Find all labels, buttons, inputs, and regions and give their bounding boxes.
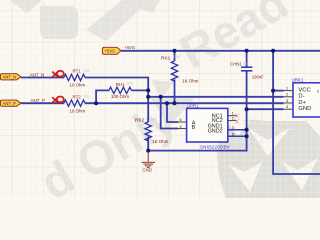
svg-text:ANT_N: ANT_N (3, 75, 17, 80)
IC UPR1 SN65220DBV (187, 104, 230, 150)
svg-text:SN65220DBV: SN65220DBV (200, 144, 230, 149)
svg-text:1K Ohm: 1K Ohm (152, 139, 168, 144)
svg-text:100 Ohm: 100 Ohm (111, 94, 129, 99)
wire RH1 left vertical (96, 90, 109, 103)
resistor RK1 (161, 55, 199, 84)
svg-text:UPR1: UPR1 (187, 104, 199, 109)
svg-text:10%: 10% (127, 81, 134, 85)
junction dot rail-RK1 (173, 49, 177, 53)
URK1 pin 4 stub (GND) (284, 108, 294, 110)
svg-text:1: 1 (286, 87, 288, 91)
wire RK1 top stub (174, 51, 176, 61)
svg-text:2: 2 (286, 93, 288, 97)
wire ANT_N segment (21, 77, 64, 79)
resistor RT2 (64, 95, 90, 114)
svg-text:10%: 10% (83, 95, 90, 99)
wire cap top (246, 51, 248, 67)
junction dot rail-drop (271, 49, 275, 53)
wire RK1 bottom stub (174, 80, 176, 104)
wire ANT_N to bus corner (85, 78, 148, 123)
svg-text:RK1: RK1 (161, 55, 171, 61)
svg-text:RT1: RT1 (73, 69, 82, 74)
URK1 pin 3 stub (D+) (284, 102, 294, 104)
wire RH1 right stub (132, 89, 149, 91)
svg-text:3: 3 (286, 99, 288, 103)
svg-text:10%: 10% (151, 118, 158, 122)
svg-text:GND: GND (298, 106, 311, 112)
wire bus below RK2 to gnd junction (147, 137, 149, 151)
svg-text:RT2: RT2 (73, 95, 82, 100)
power port +5VS (102, 47, 121, 54)
svg-text:4: 4 (286, 105, 288, 109)
UPR1 pin 2 stub (NC2) (228, 120, 237, 122)
svg-text:1K Ohm: 1K Ohm (182, 79, 198, 84)
svg-text:RH1: RH1 (116, 82, 125, 87)
junction dot gnd rail (146, 149, 150, 153)
svg-text:4: 4 (180, 125, 182, 129)
ground symbol GND (142, 151, 156, 173)
wire VCC tap (273, 90, 283, 92)
junction dot GND2 (245, 134, 249, 138)
port ANT_N (0, 74, 21, 80)
junction dot VCC tap (271, 89, 275, 93)
svg-text:+5VS: +5VS (125, 45, 136, 50)
junction dot RK1-ANT_P (173, 101, 177, 105)
junction dot rail-CHN1 (245, 49, 249, 53)
svg-text:GND: GND (142, 168, 153, 173)
watermark (decorative) (10, 0, 297, 210)
svg-text:1: 1 (232, 112, 234, 116)
svg-text:10%: 10% (174, 55, 181, 59)
svg-text:5: 5 (232, 132, 234, 136)
UPR1 pin 6 stub (A) (178, 121, 187, 123)
wire D- line (148, 96, 283, 98)
wire UPR1 pin B tap (161, 97, 178, 129)
svg-text:6: 6 (180, 118, 182, 122)
wire UPR1 GND2 pin (228, 135, 247, 137)
wire +5VS rail (121, 50, 320, 52)
svg-text:CHN1: CHN1 (230, 62, 242, 67)
wire GND pin line (247, 108, 284, 110)
IC URK1 (USB connector) (292, 77, 320, 117)
UPR1 pin 1 stub (NC1) (228, 115, 237, 117)
resistor RH1 (109, 81, 133, 99)
svg-text:ANT_P: ANT_P (3, 101, 17, 106)
svg-text:ANT_P: ANT_P (31, 98, 46, 103)
svg-text:VCC: VCC (298, 87, 310, 93)
junction dot bus-D- (146, 95, 150, 99)
wire UPR1 pin A tap (167, 103, 178, 122)
wire UPR1 GND1 pin (228, 129, 247, 131)
no-ERC marker on NC1 (235, 114, 239, 118)
wire ground rail (148, 71, 246, 151)
svg-text:D+: D+ (298, 100, 306, 106)
capacitor CHN1 (230, 62, 264, 80)
resistor RK2 (135, 117, 169, 144)
svg-text:+5VS: +5VS (105, 49, 116, 54)
wire +5V drop to lower right (273, 51, 320, 174)
port ANT_P (0, 100, 21, 106)
URK1 pin 2 stub (D-) (284, 96, 294, 98)
junction dot B tap (159, 95, 163, 99)
svg-text:2: 2 (232, 117, 234, 121)
resistor RT1 (64, 69, 90, 88)
svg-text:GND2: GND2 (208, 128, 223, 134)
svg-text:100nF: 100nF (252, 74, 264, 79)
junction dot A tap (165, 101, 169, 105)
svg-text:3: 3 (317, 89, 319, 93)
svg-text:10%: 10% (83, 69, 90, 73)
svg-text:B: B (192, 125, 196, 131)
svg-text:10 Ohm: 10 Ohm (70, 108, 86, 113)
svg-text:3: 3 (232, 126, 234, 130)
junction dot RH1-ANT_P (94, 101, 98, 105)
differential pair marker ANT_N (52, 71, 64, 77)
URK1 pin 1 stub (VCC) (284, 90, 294, 92)
svg-text:URK1: URK1 (292, 77, 304, 82)
no-ERC marker on NC2 (235, 120, 239, 124)
wire ANT_P / D+ line (85, 102, 284, 104)
svg-text:RK2: RK2 (135, 117, 145, 123)
svg-text:D-: D- (298, 94, 304, 100)
junction dot GND1 (245, 128, 249, 132)
junction dot bus-RH1 (146, 88, 150, 92)
UPR1 pin 4 stub (B) (178, 128, 187, 130)
junction dot GND line (245, 107, 249, 111)
differential pair marker ANT_P (52, 97, 64, 103)
svg-text:10 Ohm: 10 Ohm (70, 82, 86, 87)
wire ANT_P segment (21, 102, 64, 104)
svg-text:10%: 10% (243, 62, 250, 66)
svg-text:ANT_N: ANT_N (30, 73, 45, 78)
